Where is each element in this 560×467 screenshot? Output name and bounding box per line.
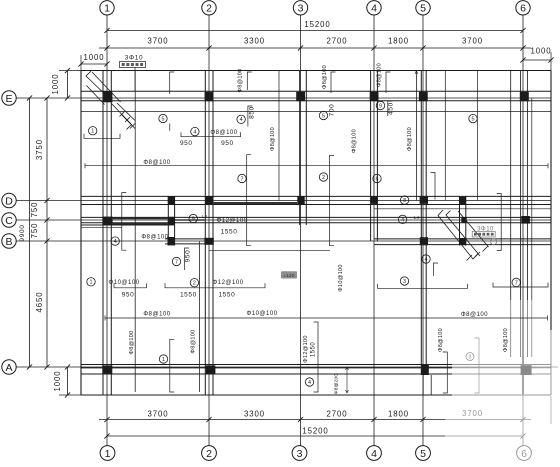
svg-text:C: C	[5, 215, 13, 227]
beam edge above grid D	[81, 195, 551, 197]
svg-text:3: 3	[403, 279, 406, 285]
svg-text:Φ8@200: Φ8@200	[334, 374, 340, 395]
svg-text:950: 950	[122, 292, 135, 299]
beam edge below grid E	[81, 100, 551, 102]
svg-text:A: A	[5, 362, 12, 374]
grid line 6 vertical (fades grey at bottom)	[522, 15, 524, 394]
svg-text:Φ8@100: Φ8@100	[352, 129, 358, 153]
svg-text:1000: 1000	[531, 47, 552, 56]
bracket top strip x=386	[386, 72, 391, 93]
column A-2	[206, 365, 216, 374]
svg-text:Φ8@100: Φ8@100	[143, 160, 170, 166]
callout 4 near grid 5	[422, 255, 430, 263]
svg-text:1: 1	[104, 3, 110, 15]
thick C beam segment grid1 to axis 171	[113, 217, 168, 219]
callout 4 near grid 3 bottom	[305, 378, 313, 386]
axis bubble E left	[2, 91, 16, 105]
callout 1 bottom left bay	[159, 355, 167, 363]
callout 2 bay B-A	[190, 279, 198, 287]
callout 4 on grid B	[111, 237, 119, 245]
axis bubble A left	[2, 360, 16, 374]
svg-text:3300: 3300	[244, 37, 265, 46]
bracket x=447 bottom right	[443, 352, 448, 393]
svg-text:2700: 2700	[327, 410, 348, 419]
svg-text:3Φ10: 3Φ10	[125, 55, 143, 62]
beam edge above grid C	[81, 216, 551, 218]
svg-text:1: 1	[90, 280, 93, 286]
top segment dimension line	[99, 47, 531, 49]
svg-text:1: 1	[105, 448, 111, 460]
axis bubble 5 top	[416, 1, 430, 15]
left segment dimension line	[46, 98, 48, 367]
svg-text:4: 4	[240, 117, 243, 123]
wall line x=531.8 (greyed below)	[531, 98, 533, 300]
beam edge below grid A (right part grey)	[81, 373, 452, 375]
callout 5 mid top	[319, 111, 327, 119]
svg-text:700: 700	[329, 104, 336, 117]
column C-6	[521, 216, 530, 224]
tall bracket x=329 D to B	[330, 156, 335, 246]
svg-text:Φ8@100: Φ8@100	[143, 312, 170, 318]
axis bubble 6 bottom faded	[517, 446, 532, 461]
slab outline bottom edge (right part grey)	[81, 394, 452, 396]
leader line from hole label to beam	[134, 68, 136, 92]
svg-text:7: 7	[515, 280, 518, 286]
column D-3	[297, 196, 304, 204]
svg-text:D: D	[5, 195, 13, 207]
axis bubble 2 top	[202, 1, 216, 15]
rebar extent line across E-D bay	[85, 165, 548, 167]
beam edge above grid B right part	[374, 238, 551, 240]
callout 4 on grid C	[398, 215, 406, 223]
svg-text:2: 2	[206, 3, 212, 15]
svg-text:950: 950	[180, 140, 193, 147]
column A-6 (faded grey)	[521, 365, 532, 375]
bracket x=170 bottom bay	[170, 339, 175, 392]
axis bubble 3 top	[293, 1, 307, 15]
svg-text:Φ8@100: Φ8@100	[438, 328, 444, 352]
svg-text:3700: 3700	[462, 409, 483, 418]
rebar extent line x=416 with top arrow	[415, 71, 417, 201]
callout 8 faded bottom right	[466, 353, 474, 361]
beam edges along grid 6 (greyed below)	[520, 71, 522, 301]
bracket x=479 faded	[475, 338, 480, 393]
svg-text:6: 6	[521, 448, 527, 460]
beam edge below grid C	[81, 222, 551, 224]
callout 1 bay B-A left	[87, 278, 95, 286]
bracket top strip x=331	[331, 72, 336, 93]
svg-text:1800: 1800	[388, 37, 409, 46]
rebar annotation vertical line x=347 with arrows	[346, 367, 348, 393]
svg-text:Φ12@100: Φ12@100	[216, 218, 247, 224]
beam edges along grid 4 (E to B)	[370, 71, 372, 242]
svg-text:Φ8@100: Φ8@100	[270, 127, 276, 151]
svg-text:1: 1	[162, 357, 165, 363]
svg-text:5: 5	[420, 448, 426, 460]
svg-text:4: 4	[193, 130, 196, 136]
beam edge below grid B right part	[374, 244, 551, 246]
callout 3 bay B-A right	[400, 277, 408, 285]
beam edge below grid B segment 171-2	[165, 243, 205, 245]
callout 4 bay E-D	[191, 127, 199, 135]
grid line A horizontal (right part grey)	[16, 366, 452, 368]
rebar annotation vertical line x=136	[134, 71, 136, 393]
column E-5	[419, 92, 428, 101]
axis bubble D left	[2, 193, 16, 207]
svg-text:1550: 1550	[218, 292, 235, 299]
column E-6	[520, 92, 529, 101]
svg-text:9: 9	[192, 216, 195, 222]
bracket x=501 right	[497, 194, 502, 251]
svg-text:3700: 3700	[462, 37, 483, 46]
left top 1000 dimension	[67, 71, 69, 99]
callout 1 bay E-D left	[89, 127, 97, 135]
svg-text:15200: 15200	[304, 20, 330, 29]
bracket 950/950 E-D	[181, 132, 241, 137]
svg-text:5: 5	[472, 117, 475, 123]
svg-text:450: 450	[388, 102, 395, 115]
svg-text:1550: 1550	[180, 292, 197, 299]
extra C row wall line left bay	[81, 224, 172, 226]
small circle after stair-2 label	[491, 239, 497, 245]
column A-5	[421, 365, 429, 375]
bottom segment dimension line (right part grey)	[99, 419, 445, 421]
bracket callout 3 B-A right	[378, 284, 468, 289]
svg-text:7: 7	[175, 259, 178, 265]
svg-text:3750: 3750	[35, 139, 44, 160]
callout 7 far right	[512, 278, 520, 286]
svg-text:3300: 3300	[244, 410, 265, 419]
column D-2	[205, 196, 213, 204]
callout 7 bay B-A	[172, 257, 180, 265]
svg-text:Φ8@100: Φ8@100	[129, 330, 135, 354]
rebar annotation vertical line x=199.6	[199, 242, 201, 393]
svg-text:9: 9	[379, 103, 382, 109]
callout 6 bay E-D lower	[373, 174, 381, 182]
svg-text:7: 7	[241, 176, 244, 182]
leader under callout 5	[169, 124, 171, 132]
svg-text:4: 4	[401, 217, 404, 223]
svg-text:Φ8@100: Φ8@100	[238, 68, 244, 92]
svg-text:Φ8@100: Φ8@100	[210, 130, 237, 136]
axis bubble 3 bottom	[292, 446, 307, 461]
svg-text:8: 8	[403, 198, 406, 204]
svg-text:1000: 1000	[53, 371, 62, 392]
svg-text:950: 950	[221, 140, 234, 147]
callout 9 below E	[376, 101, 384, 109]
column D-5	[420, 196, 428, 204]
wall line below B centre part	[209, 249, 330, 251]
bracket top strip x=170	[170, 72, 175, 94]
beam edges along grid 1	[102, 71, 104, 396]
rebar extent line across B-A bay	[105, 317, 548, 319]
bracket top strip x=247	[247, 72, 252, 90]
secondary line below D right part	[374, 208, 551, 210]
grid line 4 vertical	[373, 15, 375, 445]
beam edge above grid A (right part grey)	[81, 364, 452, 366]
secondary beam line x=445 (E to D)	[444, 71, 446, 201]
svg-text:Φ8@100: Φ8@100	[141, 234, 168, 240]
left overall dimension line 9900	[29, 98, 31, 367]
beam edges along grid 3 (E to C)	[299, 71, 301, 226]
svg-text:Φ8@100: Φ8@100	[191, 329, 197, 353]
beam edges along grid 5	[420, 71, 422, 376]
svg-text:Φ8@100: Φ8@100	[377, 63, 383, 87]
left bottom 1000 dimension	[67, 367, 69, 395]
tall bracket x=247 E-D to B	[247, 155, 252, 246]
callout 7 bay E-D lower	[238, 174, 246, 182]
svg-text:Φ8@100: Φ8@100	[461, 312, 488, 318]
column C-171	[168, 217, 175, 226]
stair opening hatch at B-5/6	[438, 210, 489, 261]
wall face line below E	[81, 111, 551, 113]
svg-text:15200: 15200	[302, 427, 328, 436]
svg-text:5: 5	[322, 113, 325, 119]
svg-text:2: 2	[206, 448, 212, 460]
beam edge below grid D	[81, 204, 551, 206]
column B-5	[420, 237, 428, 245]
svg-text:9900: 9900	[19, 225, 26, 242]
svg-text:4: 4	[371, 448, 377, 460]
column D-4	[371, 196, 378, 204]
column E-1	[103, 91, 113, 102]
tall bracket x=122 D to B	[122, 193, 127, 251]
bracket near grid5 B-A	[434, 263, 439, 276]
svg-text:Φ12@100: Φ12@100	[212, 280, 243, 286]
grid line C horizontal	[16, 219, 551, 221]
svg-text:Φ12@100: Φ12@100	[303, 335, 309, 362]
callout 4 top strip	[237, 115, 245, 123]
svg-text:5: 5	[420, 3, 426, 15]
svg-text:4650: 4650	[35, 292, 44, 313]
svg-text:Φ10@100: Φ10@100	[108, 280, 139, 286]
bracket right of grid5 above D	[431, 173, 436, 200]
beam edges along grid 2	[204, 71, 206, 396]
column D-462	[459, 197, 466, 204]
slab thickness grey tag h=120	[281, 271, 297, 278]
column B-171	[168, 237, 176, 245]
grid line E horizontal	[16, 97, 551, 99]
svg-text:8: 8	[469, 354, 472, 360]
svg-text:6: 6	[376, 176, 379, 182]
callout 5 bay E-D	[159, 114, 167, 122]
svg-text:E: E	[5, 93, 12, 105]
bracket for 450	[388, 101, 393, 116]
grid line 1 vertical	[106, 15, 108, 445]
svg-text:3700: 3700	[148, 37, 169, 46]
secondary beam line x=477 (E to D)	[476, 71, 478, 201]
beam at intermediate axis x=171 (D to B) edges	[167, 196, 169, 245]
svg-text:3700: 3700	[148, 410, 169, 419]
slab outline top edge	[81, 70, 551, 72]
column B-2	[204, 238, 213, 245]
column E-2	[205, 92, 214, 101]
thick D beam segment between grid 2 and 3	[213, 202, 297, 204]
svg-text:4: 4	[371, 3, 377, 15]
svg-text:1550: 1550	[221, 229, 238, 236]
top overall dimension line 15200	[107, 30, 523, 32]
svg-text:4: 4	[425, 257, 428, 263]
svg-text:1550: 1550	[311, 342, 317, 358]
svg-text:750: 750	[30, 223, 39, 239]
bracket for 950 B-A	[185, 248, 190, 270]
wall line below C left part	[81, 227, 122, 229]
beam at intermediate axis x=462 (D to B) edges	[459, 196, 461, 245]
bracket for 850	[248, 106, 253, 127]
svg-text:L4: L4	[202, 214, 208, 219]
secondary beam line x=279 (E to D)	[278, 71, 280, 201]
axis bubble 1 bottom	[100, 446, 115, 461]
svg-text:Φ8@100: Φ8@100	[503, 328, 509, 352]
callout 9 at grid2-C	[189, 214, 197, 222]
axis bubble C left	[2, 213, 16, 227]
thick C beam segment axis 171 to grid2	[175, 219, 205, 221]
svg-text:3: 3	[298, 3, 304, 15]
slab outline right edge (lower part grey)	[550, 71, 552, 331]
beam edge above grid E	[81, 90, 551, 92]
svg-text:2: 2	[322, 175, 325, 181]
svg-text:=120: =120	[283, 273, 294, 278]
bracket 950 B-A left	[114, 283, 147, 288]
grid line 5 vertical	[422, 15, 424, 445]
bracket callout 7 far right	[493, 283, 548, 288]
slab outline left edge	[80, 71, 82, 396]
svg-text:2: 2	[193, 281, 196, 287]
svg-text:850: 850	[248, 106, 255, 119]
axis bubble 4 bottom	[367, 446, 382, 461]
svg-text:1000: 1000	[84, 53, 105, 62]
svg-text:4: 4	[308, 380, 311, 386]
bracket 1550/1550 B-A	[165, 283, 265, 288]
svg-text:Φ8@100: Φ8@100	[322, 65, 328, 89]
svg-text:Φ10@100: Φ10@100	[338, 264, 344, 291]
column E-4	[370, 92, 379, 101]
svg-text:1: 1	[91, 129, 94, 135]
svg-text:L4: L4	[414, 215, 420, 220]
svg-text:2700: 2700	[327, 37, 348, 46]
svg-text:5: 5	[162, 116, 165, 122]
column C-1	[102, 217, 112, 225]
svg-text:6: 6	[520, 3, 526, 15]
column D-171	[168, 197, 175, 205]
bottom overall dimension line 15200 (right part grey)	[107, 435, 445, 437]
svg-text:Φ8@100: Φ8@100	[407, 127, 413, 151]
grid line 3 vertical	[300, 15, 302, 445]
svg-text:Φ10@100: Φ10@100	[246, 311, 277, 317]
axis bubble 4 top	[367, 1, 381, 15]
grid line 2 vertical	[208, 15, 210, 445]
stair opening hatch at E-1	[86, 71, 136, 130]
svg-text:1800: 1800	[388, 410, 409, 419]
callout 2 bay E-D lower	[319, 173, 327, 181]
top right 1000 dimension	[523, 59, 551, 61]
beam stub below A at grid 5	[422, 375, 424, 395]
grid line B horizontal	[16, 240, 551, 242]
svg-text:3: 3	[297, 448, 303, 460]
bracket under callout 1 E-D	[84, 134, 120, 139]
beam edge above grid B segment 171-2	[165, 238, 205, 240]
axis bubble 6 top	[516, 1, 530, 15]
column B-462	[459, 238, 466, 245]
bracket x=318 bottom bay	[314, 322, 319, 392]
column E-3	[296, 92, 305, 101]
column A-1	[102, 365, 112, 374]
callout 8 on grid D	[400, 196, 408, 204]
svg-text:750: 750	[30, 202, 39, 218]
svg-text:B: B	[5, 236, 12, 248]
axis bubble B left	[2, 234, 16, 248]
dark centre line of A beam	[81, 367, 452, 369]
axis bubble 2 bottom	[202, 446, 217, 461]
bottom right grey extension line	[550, 396, 552, 424]
axis bubble 1 top	[100, 1, 114, 15]
grid line D horizontal	[16, 200, 551, 202]
column C-462	[461, 217, 466, 223]
svg-text:950: 950	[185, 250, 192, 263]
wall line x=510.7 (greyed below)	[510, 71, 512, 301]
callout 5 right top	[469, 114, 477, 122]
axis bubble 5 bottom	[416, 446, 431, 461]
svg-text:4: 4	[114, 239, 117, 245]
svg-text:1000: 1000	[51, 74, 60, 95]
top left 1000 dimension	[81, 63, 107, 65]
